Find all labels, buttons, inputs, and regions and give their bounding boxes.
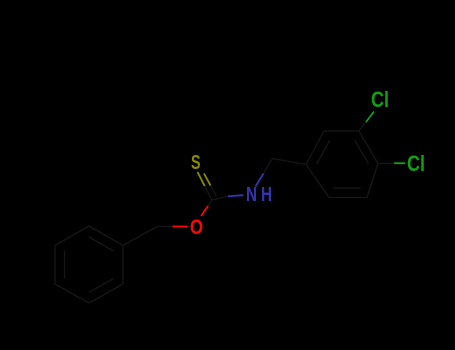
- right benzene ring: [306, 131, 378, 198]
- wire ring inner double L-TL: [317, 140, 330, 164]
- left benzene ring: [55, 226, 123, 303]
- wire CH2-ring bond (left): [123, 227, 157, 246]
- wire C-Cl2 bond gray half: [378, 162, 394, 164]
- wire C-Cl2 bond green half: [394, 162, 405, 164]
- svg-text:N: N: [246, 184, 257, 206]
- wire S=C inner line olive half: [204, 174, 211, 186]
- wire N-CH2 bond blue half: [256, 174, 264, 187]
- svg-text:Cl: Cl: [407, 151, 425, 176]
- svg-text:O: O: [190, 216, 203, 239]
- wire S=C main line olive half: [198, 172, 205, 186]
- wire ring edge L-TL: [306, 131, 324, 165]
- wire S=C main line gray half: [205, 186, 212, 200]
- wire C-N bond gray half: [212, 196, 228, 200]
- wire ring edge BR-BL: [329, 197, 367, 199]
- wire ring inner double T-TR: [89, 237, 114, 251]
- wire ring edge BL-L: [306, 165, 329, 198]
- wire ring inner double BR-BL: [333, 187, 360, 189]
- svg-text:S: S: [191, 152, 201, 174]
- wire S=C inner line gray half: [211, 186, 217, 197]
- wire ring inner double BL-TL: [64, 251, 66, 279]
- svg-text:Cl: Cl: [371, 87, 389, 112]
- wire ring edge T-TR: [89, 226, 123, 246]
- wire ring edge TR-BR: [122, 246, 124, 285]
- wire ring inner double BR-B: [89, 279, 114, 293]
- wire ring edge BL-TL: [54, 246, 56, 285]
- wire C-Cl1 bond green half: [366, 112, 374, 123]
- wire O-CH2 bond gray half: [157, 226, 173, 228]
- wire ring edge R-BR: [367, 164, 378, 198]
- wire ring edge B-BL: [55, 284, 89, 303]
- wire C-N bond blue half: [228, 195, 244, 196]
- svg-text:H: H: [261, 184, 272, 206]
- wire ring edge BR-B: [89, 284, 123, 303]
- wire O-CH2 bond red half: [173, 226, 188, 228]
- wire ring inner double TR-R: [355, 140, 369, 163]
- wire N-CH2 bond gray half: [264, 159, 273, 174]
- wire ring edge TL-TR: [324, 130, 359, 132]
- wire O-C bond red half: [201, 206, 208, 216]
- wire C-Cl1 bond gray half: [359, 122, 366, 132]
- wire ring edge TL-T: [55, 226, 89, 246]
- wire ring edge TR-R: [359, 131, 378, 164]
- wire CH2-ring bond (right): [273, 159, 307, 165]
- wire O-C bond gray half: [208, 200, 212, 206]
